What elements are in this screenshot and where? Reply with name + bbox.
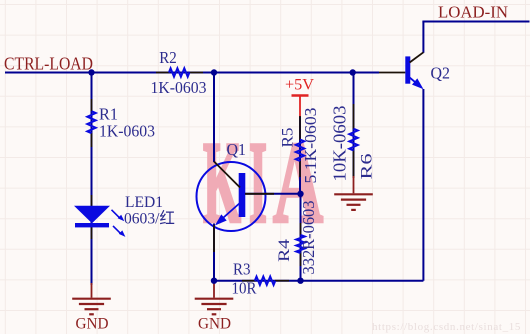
svg-text:Q2: Q2 bbox=[431, 64, 451, 83]
svg-text:I: I bbox=[249, 119, 267, 248]
junction node at CTRL-LOAD / R1 bbox=[88, 69, 94, 75]
svg-text:Q1: Q1 bbox=[227, 140, 247, 159]
svg-text:+5V: +5V bbox=[285, 77, 314, 94]
wire: Q2 emitter vertical bbox=[422, 89, 424, 281]
svg-text:https://blog.csdn.net/sinat_15: https://blog.csdn.net/sinat_15 bbox=[372, 321, 521, 333]
svg-text:10K-0603: 10K-0603 bbox=[330, 105, 350, 181]
LED1 pins bbox=[91, 195, 93, 207]
transistor Q1 base pin diagonal bbox=[214, 162, 240, 188]
transistor Q2 emitter with arrow bbox=[410, 78, 417, 84]
junction node at R6 top bbox=[350, 69, 356, 75]
svg-text:GND: GND bbox=[76, 316, 109, 333]
junction node at R3 / R4 bottom bbox=[297, 278, 303, 284]
wire: R1 branch vertical bbox=[91, 73, 93, 286]
transistor Q2 base bar bbox=[405, 56, 410, 83]
svg-text:1K-0603: 1K-0603 bbox=[151, 78, 207, 97]
svg-text:1K-0603: 1K-0603 bbox=[99, 122, 155, 141]
transistor Q1 emitter pin stub bbox=[213, 225, 215, 252]
transistor Q1 emitter with arrow bbox=[219, 202, 241, 222]
wire: top-right LOAD-IN horizontal bbox=[422, 21, 529, 23]
junction node at Q1 emitter / R3 / GND bbox=[211, 278, 217, 284]
svg-text:LOAD-IN: LOAD-IN bbox=[438, 3, 508, 22]
ground symbol below LED1 bbox=[91, 283, 93, 298]
wire: Q1 base branch vertical bbox=[213, 73, 215, 163]
wire: R5 branch vertical bbox=[299, 116, 301, 194]
svg-text:R3: R3 bbox=[233, 260, 251, 279]
svg-text:CTRL-LOAD: CTRL-LOAD bbox=[4, 54, 93, 74]
svg-text:R5: R5 bbox=[280, 128, 297, 148]
wire: bottom horizontal net bbox=[214, 280, 423, 282]
transistor Q1 collector pin bbox=[245, 193, 274, 195]
resistor R5 body bbox=[296, 140, 304, 162]
transistor Q1 circle bbox=[197, 162, 266, 231]
LED1 body: cathode bar bbox=[75, 223, 109, 227]
svg-text:10R: 10R bbox=[232, 279, 258, 298]
LED1 body: triangle bbox=[74, 206, 110, 224]
resistor R1 pins bbox=[91, 99, 93, 112]
svg-text:R4: R4 bbox=[276, 239, 293, 262]
resistor R6 pins bbox=[353, 104, 355, 129]
resistor R2 body bbox=[169, 68, 190, 76]
svg-text:0603/红: 0603/红 bbox=[124, 210, 175, 228]
LED1 emission arrow 1 bbox=[112, 210, 120, 218]
svg-text:GND: GND bbox=[198, 316, 231, 333]
junction node at Q1 collector / R5 / R4 bbox=[297, 191, 303, 197]
svg-text:R2: R2 bbox=[159, 48, 177, 67]
wire: R6 branch vertical bbox=[353, 73, 355, 179]
wire: R4 branch vertical bbox=[300, 194, 302, 281]
wire: Q1 emitter vertical bbox=[213, 224, 215, 284]
transistor Q2 base pin bbox=[379, 72, 405, 74]
svg-text:R1: R1 bbox=[99, 104, 118, 123]
wire: Q1 collector to R4/R5 node bbox=[245, 193, 301, 195]
svg-text:5.1K-0603: 5.1K-0603 bbox=[301, 108, 320, 184]
resistor R4 pins bbox=[300, 223, 302, 236]
junction node at R2 / Q1 base bbox=[211, 69, 217, 75]
LED1 emission arrow 2 bbox=[113, 226, 121, 234]
svg-text:LED1: LED1 bbox=[125, 194, 163, 211]
ground symbol below Q1 emitter bbox=[213, 283, 215, 298]
ground symbol below R6 bbox=[353, 176, 355, 193]
resistor R5 pins bbox=[299, 116, 301, 140]
resistor R4 body bbox=[296, 235, 304, 253]
resistor R3 body bbox=[255, 277, 275, 285]
resistor R6 body bbox=[349, 129, 357, 151]
resistor R3 pins bbox=[242, 280, 256, 282]
resistor R1 body bbox=[87, 111, 95, 133]
transistor Q1 base bar bbox=[239, 173, 246, 217]
transistor Q2 collector diagonal bbox=[410, 52, 424, 62]
svg-text:332R-0603: 332R-0603 bbox=[299, 201, 318, 275]
svg-text:R6: R6 bbox=[359, 154, 376, 180]
wire: Q2 collector vertical bbox=[422, 22, 424, 53]
resistor R2 pins bbox=[156, 72, 170, 74]
wire: main horizontal net CTRL-LOAD bbox=[5, 72, 379, 74]
